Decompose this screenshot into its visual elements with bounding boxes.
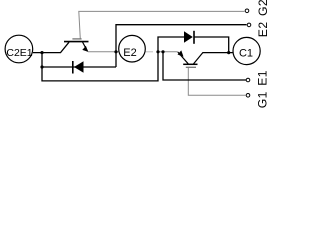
svg-text:C1: C1	[239, 48, 253, 60]
svg-text:E2: E2	[256, 21, 270, 37]
svg-text:G2: G2	[256, 0, 270, 16]
svg-text:C2E1: C2E1	[6, 47, 32, 59]
svg-text:E1: E1	[256, 70, 270, 86]
svg-text:E2: E2	[123, 47, 136, 59]
svg-text:G1: G1	[256, 91, 270, 108]
